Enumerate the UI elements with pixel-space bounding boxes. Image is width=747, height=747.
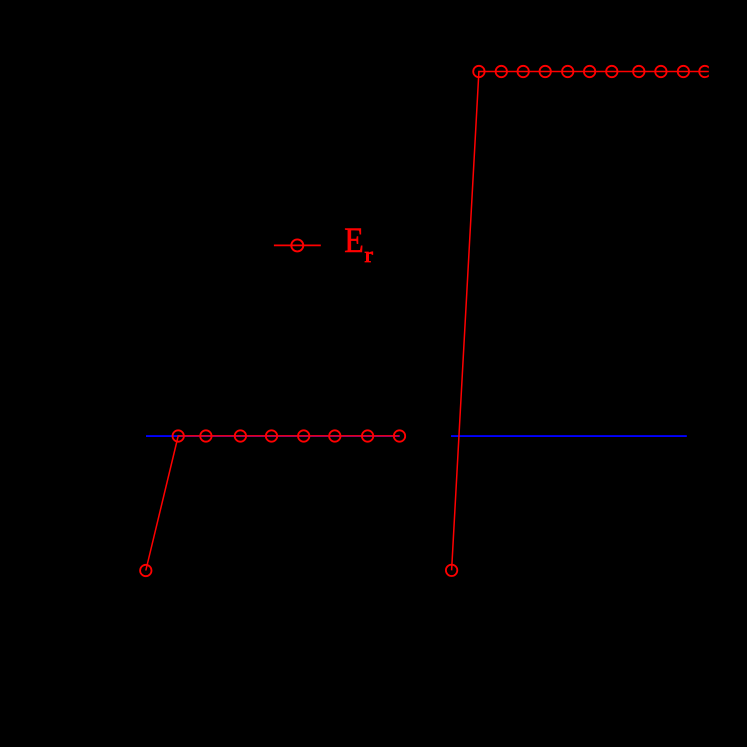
- red series E_r group 1 line: [146, 436, 400, 571]
- red circle markers group 2 (last one clipped at plot edge): [446, 66, 711, 576]
- blue mean segment 1: [146, 435, 400, 437]
- legend sample line: [274, 244, 321, 246]
- legend sample circle marker: [291, 239, 303, 251]
- svg-text:E: E: [344, 221, 364, 260]
- red series E_r group 2 line (continues past plot edge, clipped): [452, 72, 726, 571]
- svg-text:r: r: [365, 243, 374, 267]
- blue mean segment 2: [451, 435, 687, 437]
- red circle markers group 1: [140, 430, 405, 576]
